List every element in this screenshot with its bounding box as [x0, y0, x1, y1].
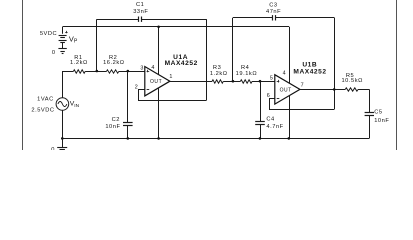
wire C3 feedback rail [232, 18, 234, 81]
op-amp U1B MAX4252 [275, 75, 300, 104]
svg-text:6: 6 [267, 93, 271, 99]
wire R3-R4 [223, 81, 240, 83]
wire C4 column [260, 81, 262, 121]
wire U1B V- to ground rail [289, 96, 291, 139]
svg-text:3: 3 [140, 65, 144, 71]
svg-text:C5: C5 [374, 109, 382, 115]
svg-text:1.2kΩ: 1.2kΩ [70, 60, 88, 66]
node C2 tap [127, 70, 130, 73]
capacitor C3 47nF [272, 15, 274, 20]
node R3/R4/C3 [232, 80, 235, 83]
svg-text:19.1kΩ: 19.1kΩ [236, 71, 257, 77]
wire U1A output row [170, 81, 212, 83]
wire U1A V- to ground rail [158, 88, 160, 138]
node V+ U1A [157, 26, 160, 29]
svg-text:5: 5 [270, 75, 274, 81]
node U1A gnd [157, 137, 160, 140]
svg-text:0: 0 [51, 147, 55, 150]
wire C1 feedback rail [96, 19, 98, 71]
wire V+ rail [63, 26, 289, 28]
svg-text:C3: C3 [269, 3, 277, 9]
wire U1B output row [300, 89, 345, 91]
battery V1 5VDC [59, 27, 68, 49]
wire ground rail [62, 138, 369, 140]
ground (input, bottom) [62, 138, 64, 147]
svg-text:1.2kΩ: 1.2kΩ [210, 71, 228, 77]
svg-text:10nF: 10nF [105, 124, 120, 130]
wire R4 to U1B pin5 [252, 81, 275, 83]
svg-text:U1B: U1B [302, 61, 317, 68]
svg-text:33nF: 33nF [133, 9, 148, 15]
svg-text:MAX4252: MAX4252 [293, 68, 326, 75]
node C4 tap [259, 80, 262, 83]
svg-text:MAX4252: MAX4252 [165, 60, 198, 67]
wire R5 to C5 [358, 89, 369, 91]
wire input row [63, 71, 74, 73]
resistor R1 1.2k [73, 70, 85, 73]
ground (battery, node 0) [58, 49, 66, 54]
capacitor C4 4.7nF [255, 121, 265, 123]
AC source VIN 1VAC 2.5VDC [56, 98, 69, 111]
capacitor C2 10nF [123, 122, 133, 124]
svg-text:2.5VDC: 2.5VDC [31, 107, 54, 113]
svg-text:0: 0 [52, 50, 56, 56]
resistor R4 19.1k [240, 80, 252, 83]
svg-text:47nF: 47nF [266, 9, 281, 15]
svg-text:4.7nF: 4.7nF [266, 124, 283, 130]
node VIN-gnd rail [61, 137, 64, 140]
svg-text:10.5kΩ: 10.5kΩ [341, 78, 362, 84]
node C4-gnd [259, 137, 262, 140]
node U1B gnd [288, 137, 291, 140]
svg-text:1: 1 [169, 74, 173, 80]
resistor R5 10.5k [345, 88, 358, 91]
svg-text:C1: C1 [136, 2, 144, 8]
capacitor C5 10nF [365, 112, 374, 114]
svg-text:OUT: OUT [280, 87, 292, 93]
resistor R2 16.2k [106, 70, 118, 73]
wire R2 to U1A pin3 [119, 71, 145, 73]
resistor R3 1.2k [212, 80, 223, 83]
wire C5 to ground rail [369, 116, 371, 138]
svg-text:7: 7 [301, 83, 305, 89]
svg-text:OUT: OUT [150, 79, 162, 85]
svg-text:10nF: 10nF [374, 118, 389, 124]
svg-text:2: 2 [135, 84, 139, 90]
node U1B out / C3 / feedback [333, 88, 336, 91]
svg-text:4: 4 [283, 71, 287, 77]
node R1/R2/C1 [96, 70, 99, 73]
svg-text:C4: C4 [266, 116, 274, 122]
svg-text:1VAC: 1VAC [37, 96, 54, 102]
svg-text:C2: C2 [112, 117, 120, 123]
wire R1-R2 [85, 71, 106, 73]
wire C2 column [127, 71, 129, 122]
op-amp U1A MAX4252 [145, 67, 170, 96]
node C2-gnd [127, 137, 130, 140]
svg-text:16.2kΩ: 16.2kΩ [103, 60, 124, 66]
wire input column [62, 71, 64, 98]
capacitor C1 33nF [138, 17, 140, 22]
svg-text:5VDC: 5VDC [40, 31, 57, 37]
svg-text:4: 4 [151, 65, 155, 71]
